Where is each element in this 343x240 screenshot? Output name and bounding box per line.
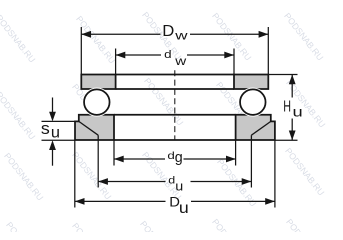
svg-text:g: g	[175, 150, 183, 166]
svg-text:d: d	[164, 48, 172, 61]
svg-text:PODSNAB.RU: PODSNAB.RU	[2, 151, 45, 202]
svg-text:PODSNAB.RU: PODSNAB.RU	[283, 146, 326, 197]
svg-text:PODSNAB.RU: PODSNAB.RU	[70, 221, 113, 232]
svg-text:D: D	[162, 22, 174, 40]
svg-text:s: s	[41, 120, 50, 138]
svg-text:d: d	[167, 150, 174, 161]
svg-text:PODSNAB.RU: PODSNAB.RU	[70, 150, 113, 201]
svg-text:d: d	[168, 176, 175, 187]
svg-text:w: w	[174, 55, 186, 68]
svg-text:PODSNAB.RU: PODSNAB.RU	[74, 14, 117, 65]
svg-text:u: u	[179, 199, 189, 217]
svg-text:PODSNAB.RU: PODSNAB.RU	[284, 217, 327, 232]
svg-text:H: H	[283, 98, 291, 116]
svg-text:PODSNAB.RU: PODSNAB.RU	[210, 217, 253, 232]
svg-text:w: w	[174, 30, 188, 43]
svg-text:u: u	[175, 178, 183, 193]
svg-text:u: u	[51, 125, 60, 142]
svg-text:PODSNAB.RU: PODSNAB.RU	[0, 90, 37, 141]
svg-text:PODSNAB.RU: PODSNAB.RU	[282, 11, 325, 62]
svg-text:PODSNAB.RU: PODSNAB.RU	[142, 76, 185, 127]
svg-text:u: u	[293, 105, 303, 121]
svg-text:PODSNAB.RU: PODSNAB.RU	[138, 219, 181, 232]
svg-text:PODSNAB.RU: PODSNAB.RU	[0, 13, 37, 64]
svg-text:PODSNAB.RU: PODSNAB.RU	[4, 220, 47, 232]
